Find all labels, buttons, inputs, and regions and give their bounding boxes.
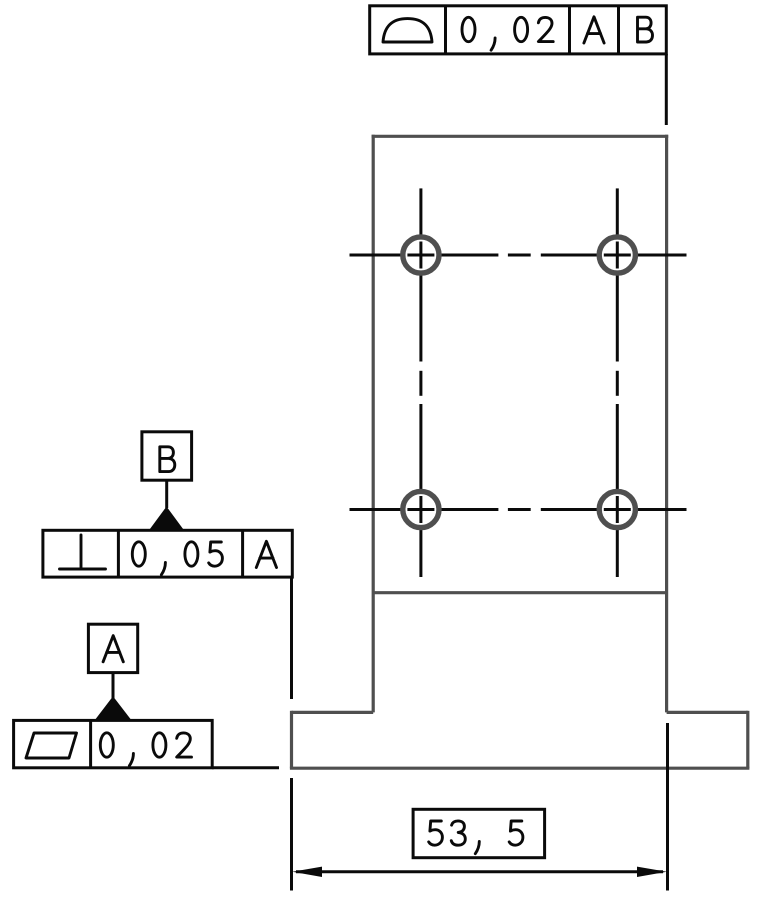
leader from FCF2 down to flange bbox=[290, 577, 293, 699]
feature control frame FCF1 (profile of surface, 0,02, A, B) bbox=[370, 6, 667, 54]
centerline vertical left column bbox=[419, 188, 422, 577]
perpendicularity symbol bbox=[60, 535, 106, 569]
hole H3 bottom-left: circle bbox=[403, 491, 439, 527]
value 0,02 (FCF3) bbox=[100, 733, 191, 766]
part outline: flange right edge bbox=[746, 711, 749, 768]
profile-of-surface symbol bbox=[383, 19, 432, 42]
value 0,02 (FCF1) bbox=[462, 17, 553, 50]
part outline: shoulder edge bbox=[373, 591, 666, 594]
centerline horizontal top row bbox=[350, 254, 687, 257]
dimension line 53,5 bbox=[296, 870, 663, 873]
datum A stem bbox=[112, 673, 115, 698]
dimension arrowhead right bbox=[637, 867, 667, 877]
feature control frame FCF3 (flatness, 0,02) bbox=[14, 720, 213, 767]
datum A label box bbox=[88, 624, 137, 672]
centerline horizontal bottom row bbox=[350, 508, 687, 511]
datum A surface extension line bbox=[212, 766, 279, 769]
dimension text 53,5 bbox=[429, 821, 523, 854]
feature control frame FCF2 (perpendicularity, 0,05, A) bbox=[43, 530, 292, 577]
part outline: plate right edge bbox=[665, 135, 668, 713]
datum B label box bbox=[142, 432, 192, 480]
part outline: flange left edge bbox=[290, 711, 293, 768]
datum B stem bbox=[165, 480, 168, 508]
centerline vertical right column bbox=[616, 188, 619, 577]
datum A filled triangle bbox=[95, 696, 132, 720]
part outline: plate left edge bbox=[372, 135, 375, 713]
dimension value box bbox=[413, 809, 544, 857]
flatness symbol (parallelogram) bbox=[26, 733, 77, 758]
part outline: bottom edge bbox=[290, 767, 750, 770]
hole H1 top-left: center cross bbox=[407, 242, 434, 269]
datum reference A (FCF2) bbox=[256, 541, 276, 567]
hole H4 bottom-right: center cross bbox=[604, 496, 631, 523]
datum B filled triangle bbox=[149, 507, 184, 531]
datum reference A (FCF1) bbox=[584, 17, 604, 43]
leader from FCF1 to part top bbox=[665, 54, 668, 125]
hole H3 bottom-left: center cross bbox=[407, 496, 434, 523]
hole H2 top-right: circle bbox=[599, 237, 635, 273]
datum B letter bbox=[160, 447, 175, 472]
datum reference B (FCF1) bbox=[638, 17, 653, 42]
dimension extension line right bbox=[666, 723, 669, 891]
part outline: flange top left bbox=[292, 711, 374, 714]
hole H4 bottom-right: circle bbox=[599, 491, 635, 527]
dimension extension line left bbox=[290, 778, 293, 891]
part outline: flange top right bbox=[667, 711, 748, 714]
value 0,05 (FCF2) bbox=[132, 542, 222, 575]
datum A letter bbox=[103, 636, 123, 662]
hole H2 top-right: center cross bbox=[604, 242, 631, 269]
hole H1 top-left: circle bbox=[403, 237, 439, 273]
part outline: plate top edge bbox=[372, 135, 669, 138]
dimension arrowhead left bbox=[292, 867, 322, 877]
